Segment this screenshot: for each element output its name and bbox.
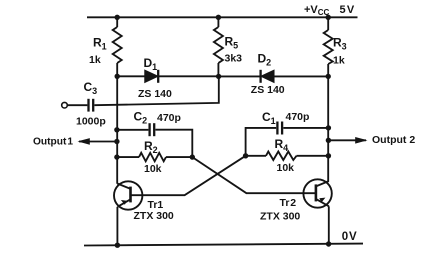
svg-text:ZS 140: ZS 140: [251, 84, 285, 96]
node Output1 / left rail: [114, 139, 119, 144]
wire D1 anode lead from left rail: [117, 75, 146, 77]
label 1000p (C3 value): [76, 116, 106, 128]
label R3: [333, 36, 347, 52]
label 470p (C1 value): [286, 111, 310, 123]
svg-text:ZS 140: ZS 140: [138, 88, 172, 100]
transistor Tr2 ZTX 300 (NPN): [303, 179, 331, 207]
label R4: [275, 137, 289, 153]
wire cross-coupling: R4/C1 node to Tr1 base: [131, 156, 246, 195]
label ZTX 300 (Tr2 type): [260, 211, 300, 223]
label ZS 140 (D2 type): [251, 84, 285, 96]
label 3k3 (R5 value): [225, 53, 243, 65]
wire Tr2 emitter to bottom rail: [328, 206, 330, 244]
svg-text:ZTX 300: ZTX 300: [134, 210, 174, 222]
wire R2 right lead to C2/R2 node: [166, 156, 192, 158]
arrowhead Output 2 (points right): [355, 137, 367, 144]
svg-text:470p: 470p: [157, 112, 181, 124]
label Tr1: [148, 199, 164, 211]
svg-text:5V: 5V: [340, 4, 355, 16]
svg-text:R1: R1: [93, 36, 107, 52]
wire R5 top lead: [217, 17, 219, 27]
wire R1 bottom lead: [116, 63, 118, 76]
svg-text:470p: 470p: [286, 111, 310, 123]
wire R1 top lead: [116, 17, 118, 27]
wire R3 bottom lead: [327, 64, 329, 76]
wire D2 anode lead to right rail: [274, 75, 329, 77]
label Output 2: [372, 134, 415, 146]
svg-text:ZTX 300: ZTX 300: [260, 211, 300, 223]
capacitor C2 470p: [150, 123, 155, 136]
resistor R4: [266, 152, 297, 161]
label +Vcc: [304, 4, 330, 17]
node D1 anode / left rail: [115, 74, 120, 79]
svg-text:0V: 0V: [342, 231, 357, 243]
svg-text:C2: C2: [134, 110, 148, 126]
wire R4 left lead from R4 node: [246, 155, 266, 157]
wire +Vcc top supply rail: [87, 16, 358, 18]
label 1k (R1 value): [89, 54, 101, 66]
wire C2 right lead, corner down to R2 node: [155, 130, 192, 157]
svg-text:1k: 1k: [89, 54, 101, 66]
node C1 / right rail: [326, 125, 331, 130]
wire D2 cathode lead from R5 node: [218, 75, 260, 77]
diode D1 ZS 140: [145, 70, 158, 83]
label ZS 140 (D1 type): [138, 88, 172, 100]
arrowhead Output1 (points left): [78, 138, 90, 145]
node top rail / R5: [216, 15, 221, 20]
node top rail / R3: [326, 15, 331, 20]
wire right rail (D2 node down to Tr2 collector): [327, 76, 329, 181]
svg-text:3k3: 3k3: [225, 53, 243, 65]
transistor Tr1 ZTX 300 (NPN): [114, 181, 142, 209]
svg-text:D1: D1: [144, 56, 158, 72]
wire C1 right lead to right rail: [283, 127, 328, 129]
node bottom rail / Tr1 emitter: [115, 243, 120, 248]
node D1-D2-R5 junction: [216, 74, 221, 79]
node C2 / left rail: [114, 127, 119, 132]
wire input terminal to C3: [67, 104, 87, 106]
wire C1 left corner lead down to R4 node: [246, 128, 277, 156]
label 470p (C2 value): [157, 112, 181, 124]
resistor R1: [113, 27, 122, 63]
label C1: [262, 110, 276, 126]
resistor R5: [214, 27, 223, 63]
wire D1 cathode lead to R5 node: [158, 75, 218, 77]
wire 0V bottom rail: [84, 244, 363, 246]
label D1: [144, 56, 158, 72]
resistor R2: [139, 153, 166, 162]
svg-text:1000p: 1000p: [76, 116, 106, 128]
svg-text:Output1: Output1: [33, 136, 73, 147]
label 10k (R2 value): [144, 163, 162, 175]
wire cross-coupling: R2/C2 node to Tr2 base: [192, 157, 316, 193]
svg-text:R5: R5: [225, 35, 239, 51]
wire C3 to D1-D2 junction (crosses left rail, corner up at x=218.8): [94, 76, 218, 105]
label 0V: [342, 231, 357, 243]
label Tr2: [280, 197, 297, 209]
wire R3 top lead: [327, 17, 329, 30]
label C2: [134, 110, 148, 126]
svg-text:D2: D2: [258, 52, 272, 68]
svg-text:Tr2: Tr2: [280, 197, 297, 209]
svg-text:R2: R2: [144, 139, 158, 155]
svg-text:10k: 10k: [144, 163, 162, 175]
svg-text:1k: 1k: [333, 55, 345, 67]
wire Tr1 emitter to bottom rail: [116, 207, 118, 245]
wire Output 2 line: [328, 139, 366, 141]
label D2: [258, 52, 272, 68]
svg-text:+VCC: +VCC: [304, 4, 330, 17]
label 5V: [340, 4, 355, 16]
node R4-C1 junction (base feed for Tr1): [243, 153, 248, 158]
svg-text:R3: R3: [333, 36, 347, 52]
node R2-C2 junction (base feed for Tr2): [190, 154, 195, 159]
label R2: [144, 139, 158, 155]
wire C2 left lead from left rail: [117, 129, 148, 131]
label C3: [84, 80, 98, 96]
label R1: [93, 36, 107, 52]
wire Output1 line: [79, 141, 117, 143]
node R2 / left rail: [114, 154, 119, 159]
node bottom rail / Tr2 emitter: [326, 241, 331, 246]
svg-text:Output 2: Output 2: [372, 134, 415, 146]
node top rail / R1: [115, 15, 120, 20]
wire R2 left lead from left rail: [117, 156, 139, 158]
label ZTX 300 (Tr1 type): [134, 210, 174, 222]
label R5: [225, 35, 239, 51]
svg-text:R4: R4: [275, 137, 289, 153]
node D2 anode / right rail: [326, 74, 331, 79]
svg-text:C3: C3: [84, 80, 98, 96]
input terminal (open circle): [62, 102, 68, 108]
diode D2 ZS 140: [261, 70, 274, 83]
wire left rail (collector of Tr1, D1 node down to transistor): [116, 76, 118, 183]
node R4 / right rail: [326, 153, 331, 158]
svg-text:C1: C1: [262, 110, 276, 126]
wire R5 bottom lead: [217, 63, 219, 76]
node Output 2 / right rail: [326, 138, 331, 143]
capacitor C1 470p: [277, 122, 282, 135]
svg-text:10k: 10k: [277, 162, 295, 174]
label 10k (R4 value): [277, 162, 295, 174]
label 1k (R3 value): [333, 55, 345, 67]
capacitor C3 1000p: [89, 99, 94, 112]
resistor R3: [324, 30, 333, 64]
label Output1: [33, 136, 73, 147]
wire R4 right lead to right rail: [297, 155, 329, 157]
